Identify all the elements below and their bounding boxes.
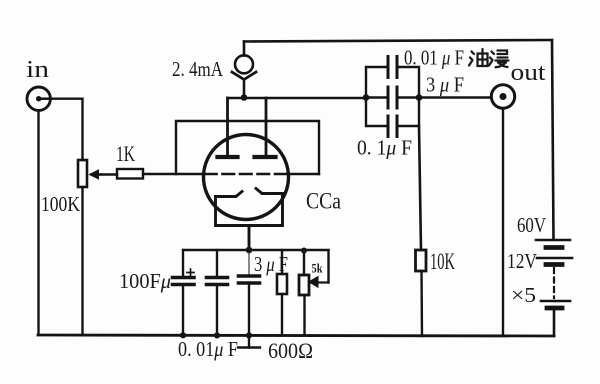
capacitor C2 3uF coupling <box>388 87 397 108</box>
capacitor C5 middle bypass <box>207 250 228 335</box>
wire input jack down to bottom bus <box>37 111 39 336</box>
tube V1 grid dashed line <box>205 173 288 176</box>
potentiometer VR2 5k <box>299 251 329 336</box>
input jack J1 <box>27 87 51 110</box>
svg-text:100Fμ: 100Fμ <box>119 269 171 293</box>
wire cathode bypass bus <box>183 249 329 251</box>
svg-text:100K: 100K <box>41 192 80 216</box>
wire bottom bus <box>38 335 554 336</box>
potentiometer VR1 100K <box>78 160 100 335</box>
wire anode bus <box>228 97 367 99</box>
svg-text:0. 01μ F: 0. 01μ F <box>178 337 238 361</box>
svg-text:60V: 60V <box>517 213 546 237</box>
svg-text:5k: 5k <box>312 261 324 276</box>
wire input to pot top <box>51 99 83 160</box>
svg-text:10K: 10K <box>430 249 455 274</box>
meter M1 2.4mA <box>232 42 256 101</box>
wire right side rail <box>552 40 554 239</box>
resistor R2 10K <box>416 250 427 336</box>
capacitor C1 0.01uF oil top branch <box>366 57 419 98</box>
output jack J2 <box>491 85 514 108</box>
wire grid loop box <box>176 121 319 174</box>
svg-text:2. 4mA: 2. 4mA <box>172 57 224 81</box>
svg-text:×5: ×5 <box>511 283 536 307</box>
capacitor C6 3uF bypass <box>239 250 260 335</box>
resistor R1 1K <box>100 169 204 179</box>
tube V1 CCa envelope <box>204 135 289 220</box>
svg-text:0. 1μ F: 0. 1μ F <box>357 136 412 160</box>
node cap right <box>416 94 423 101</box>
wire output jack to bottom bus <box>502 109 504 336</box>
tube V1 anode plates <box>218 98 276 157</box>
svg-text:600Ω: 600Ω <box>268 338 313 363</box>
wire cap rail down to 10K <box>419 126 421 250</box>
battery B1 60V 12V x5 <box>536 240 572 336</box>
svg-text:3 μ F: 3 μ F <box>426 73 464 97</box>
svg-text:12V: 12V <box>507 249 537 273</box>
wire grid right stub <box>289 173 319 175</box>
capacitor C3 0.1uF bottom branch <box>366 98 419 137</box>
tube V1 cathodes <box>216 189 283 197</box>
node pot top junction <box>301 248 307 254</box>
node cathode junction <box>246 247 253 254</box>
node bus C4 <box>180 332 186 338</box>
svg-text:1K: 1K <box>116 141 135 166</box>
wire anode to caps and out <box>366 96 492 98</box>
capacitor C4 100uF electrolytic <box>173 250 195 335</box>
ground tick <box>238 336 260 348</box>
label oil-immersed CJK <box>469 49 509 67</box>
wire top bus <box>244 40 552 42</box>
node bus C5 <box>214 332 220 338</box>
svg-text:out: out <box>511 60 546 86</box>
svg-text:in: in <box>26 57 49 83</box>
node bus C6 <box>246 332 252 338</box>
wire cathode box <box>216 194 283 251</box>
svg-text:0. 01 μ F: 0. 01 μ F <box>404 46 464 70</box>
node anode-cap left <box>363 94 370 101</box>
svg-text:CCa: CCa <box>306 189 341 214</box>
resistor R3 600 ohm <box>277 250 287 335</box>
